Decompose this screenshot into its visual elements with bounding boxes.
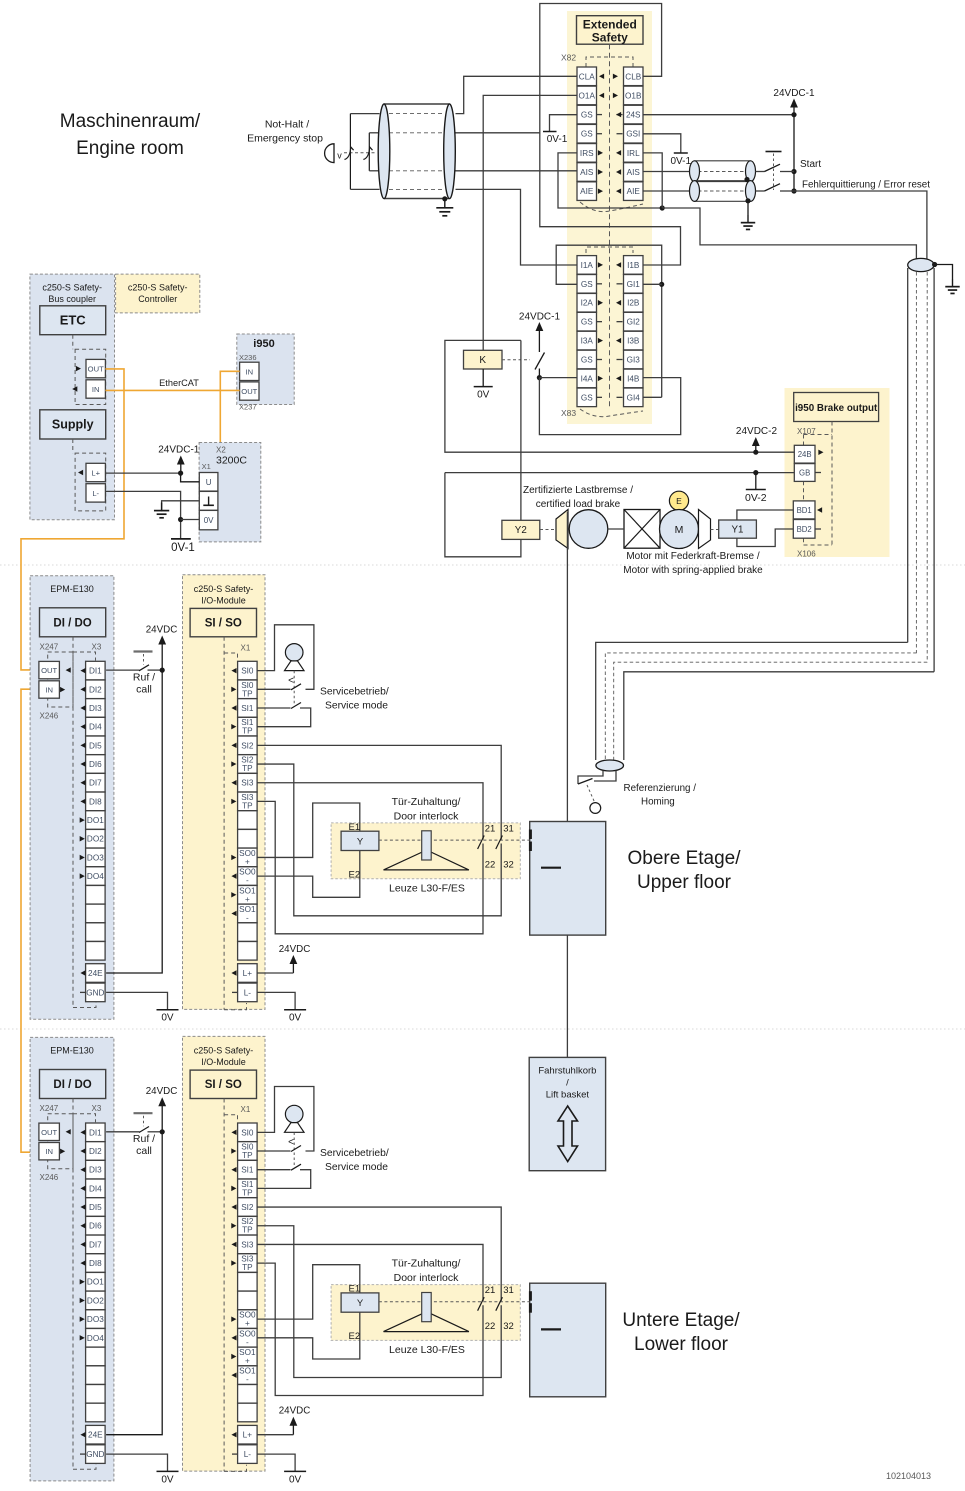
wire CLB-net down to I1B	[540, 133, 681, 265]
wire GS row1 to 0V-1	[550, 115, 578, 131]
svg-text:21: 21	[485, 824, 496, 835]
wire e-stop cable wire4 to I1A	[456, 189, 578, 265]
svg-text:I4A: I4A	[581, 374, 594, 383]
wire L- to 0V (upper)	[257, 992, 295, 1009]
spring brake box	[624, 510, 660, 549]
wire 24VDC down to 24E (lower)	[106, 1132, 162, 1435]
svg-text:24VDC-1: 24VDC-1	[158, 445, 200, 456]
svg-text:Obere Etage/: Obere Etage/	[627, 848, 741, 869]
SI/SO terminal SI2 (lower)	[238, 1198, 258, 1217]
24VDC arrow (SI/SO upper)	[290, 955, 298, 964]
wire SI3TP to contact 22 (upper)	[257, 801, 483, 933]
svg-text:0V-1: 0V-1	[547, 134, 568, 145]
svg-text:Lift basket: Lift basket	[546, 1090, 590, 1101]
svg-text:c250-S Safety-: c250-S Safety-	[194, 584, 254, 594]
svg-text:DI2: DI2	[89, 685, 102, 694]
svg-text:L-: L-	[244, 1450, 252, 1459]
X82 terminal IRL (right row 5)	[624, 144, 644, 163]
svg-text:E1: E1	[349, 1284, 361, 1295]
e-stop wiring inner loop	[369, 132, 379, 134]
X83 terminal GS (left row 4)	[577, 312, 597, 331]
svg-text:+: +	[245, 1356, 250, 1365]
svg-text:O1B: O1B	[625, 91, 642, 100]
wire GS(X83) loop over to GI rail	[556, 245, 662, 397]
svg-text:v: v	[337, 151, 342, 161]
svg-text:certified load brake: certified load brake	[536, 499, 621, 510]
EPM OUT arrow (upper)	[66, 667, 71, 672]
svg-text:DO2: DO2	[87, 1296, 104, 1305]
svg-text:AIS: AIS	[627, 168, 641, 177]
EPM terminal DI4 (lower)	[86, 1179, 106, 1198]
wire earth terminal to ground	[162, 501, 200, 512]
EPM IN arrow (upper)	[60, 687, 65, 692]
svg-text:GB: GB	[799, 469, 810, 478]
module SI/SO (lower)	[190, 1070, 256, 1098]
svg-text:Controller: Controller	[138, 294, 177, 304]
X83 terminal I1B (right row 1)	[624, 256, 644, 275]
svg-text:GI4: GI4	[627, 393, 641, 402]
svg-text:0V: 0V	[477, 390, 490, 401]
SI/SO terminal SI3 (lower)	[238, 1235, 258, 1254]
svg-text:Service mode: Service mode	[325, 701, 388, 712]
svg-text:L-: L-	[244, 988, 252, 997]
SI/SO terminal SO0- (upper)	[238, 867, 258, 886]
svg-text:c250-S Safety-: c250-S Safety-	[42, 283, 102, 293]
X1 dashed frame (upper)	[224, 653, 237, 661]
SI/SO terminal SI3TP (upper)	[238, 792, 258, 811]
Ruf actuator bar (upper)	[134, 650, 153, 652]
block Extended Safety	[577, 16, 644, 45]
svg-text:Y: Y	[357, 1298, 364, 1309]
SI/SO terminal SI2TP (lower)	[238, 1216, 258, 1235]
SI/SO terminal L- (upper)	[238, 983, 258, 1002]
svg-text:E1: E1	[349, 822, 361, 833]
svg-text:SI3: SI3	[241, 1240, 254, 1249]
emergency stop mushroom actuator	[325, 144, 334, 163]
block i950 Brake output highlight	[785, 388, 890, 557]
EPM terminal DO3 (upper)	[86, 848, 106, 867]
shielded cable (e-stop)	[384, 104, 450, 199]
24B arrow	[818, 450, 823, 455]
svg-text:EPM-E130: EPM-E130	[50, 1046, 94, 1056]
svg-text:IRL: IRL	[627, 149, 640, 158]
right cable top ferrule	[908, 258, 934, 271]
svg-text:0V: 0V	[161, 1013, 174, 1024]
svg-text:SI0: SI0	[241, 1128, 254, 1137]
svg-text:Servicebetrieb/: Servicebetrieb/	[320, 1148, 389, 1159]
X83 terminal GI3 (right row 6)	[624, 350, 644, 369]
svg-text:call: call	[136, 684, 152, 696]
svg-text:IRS: IRS	[580, 149, 594, 158]
svg-text:DI3: DI3	[89, 1166, 102, 1175]
X82 terminal AIS (right row 6)	[624, 163, 644, 182]
SI/SO terminal spare 9 (upper)	[238, 829, 258, 848]
X82 terminal CLB (right row 1)	[624, 67, 644, 86]
svg-text:OUT: OUT	[41, 1128, 57, 1137]
block EPM-E130 (lower)	[30, 1037, 114, 1481]
svg-text:24E: 24E	[88, 969, 103, 978]
EPM terminal spare 14 (lower)	[86, 1385, 106, 1404]
svg-text:TP: TP	[242, 1188, 253, 1197]
svg-text:c250-S Safety-: c250-S Safety-	[194, 1046, 254, 1056]
0V symbol under K	[474, 386, 493, 388]
SI/SO terminal spare 9 (lower)	[238, 1291, 258, 1310]
24VDC arrow (EPM lower)	[158, 1097, 166, 1106]
EPM terminal DI2 (upper)	[86, 680, 106, 699]
svg-text:Motor with spring-applied brak: Motor with spring-applied brake	[623, 565, 763, 576]
EPM IN arrow (lower)	[60, 1149, 65, 1154]
SI/SO terminal SI2 (upper)	[238, 736, 258, 755]
X82 terminal GSI (right row 4)	[624, 124, 644, 143]
svg-text:+: +	[245, 895, 250, 904]
svg-text:Tür-Zuhaltung/: Tür-Zuhaltung/	[392, 1258, 461, 1270]
relay K contact	[535, 353, 545, 370]
SI/SO terminal SI1 (lower)	[238, 1160, 258, 1179]
X83 row 1 arrows	[598, 262, 603, 267]
block i950	[237, 334, 294, 405]
wire L+ to U	[105, 472, 180, 474]
svg-text:GSI: GSI	[626, 130, 640, 139]
svg-text:24VDC: 24VDC	[146, 625, 178, 636]
svg-text:Not-Halt /: Not-Halt /	[265, 119, 309, 131]
svg-text:GI3: GI3	[627, 356, 641, 365]
svg-text:DI7: DI7	[89, 779, 102, 788]
svg-text:24VDC: 24VDC	[279, 1406, 311, 1417]
svg-text:DO4: DO4	[87, 1334, 104, 1343]
terminal OUT (EPM upper)	[39, 661, 60, 678]
node I4A junction	[537, 375, 542, 380]
svg-text:DI4: DI4	[89, 723, 102, 732]
svg-text:Homing: Homing	[641, 797, 675, 808]
svg-text:I2B: I2B	[627, 299, 640, 308]
24VDC-2 arrow	[752, 437, 760, 446]
X82 terminal AIS (left row 6)	[577, 163, 597, 182]
svg-text:EtherCAT: EtherCAT	[159, 378, 199, 388]
wire L+ to 24VDC (upper)	[257, 972, 293, 974]
terminal IN (EPM upper)	[39, 681, 60, 698]
svg-text:Safety: Safety	[592, 31, 628, 45]
block c250-S Safety-Controller	[116, 274, 200, 313]
svg-text:24VDC: 24VDC	[146, 1086, 178, 1097]
0V symbol (EPM lower)	[157, 1470, 179, 1472]
svg-text:I/O-Module: I/O-Module	[201, 596, 246, 606]
service key switch symbol (upper)	[285, 644, 303, 662]
svg-text:TP: TP	[242, 689, 253, 698]
wire GB return from Y2 loop	[445, 472, 794, 474]
wire to I4A	[539, 377, 577, 379]
X83 terminal GS (left row 2)	[577, 275, 597, 294]
service contact 2 (upper)	[291, 703, 301, 709]
svg-text:X247: X247	[40, 1104, 59, 1113]
X82 row 4 inner stubs	[597, 133, 603, 135]
svg-text:DO1: DO1	[87, 816, 104, 825]
SI/SO terminal spare 8 (upper)	[238, 811, 258, 830]
GB stub	[815, 472, 821, 474]
SI/SO terminal SO1- (lower)	[238, 1366, 258, 1385]
EPM terminal DI8 (lower)	[86, 1254, 106, 1273]
svg-text:Door interlock: Door interlock	[394, 811, 460, 823]
24VDC arrow (SI/SO lower)	[290, 1417, 298, 1426]
svg-text:DI5: DI5	[89, 741, 102, 750]
motor output cone	[699, 510, 711, 549]
wire SI3TP to contact 22 (lower)	[257, 1263, 483, 1395]
svg-text:OUT: OUT	[88, 365, 104, 374]
svg-text:IN: IN	[246, 367, 254, 376]
SI/SO terminal spare 8 (lower)	[238, 1272, 258, 1291]
emergency stop actuator dashed link	[344, 152, 376, 154]
solenoid Y2	[502, 520, 540, 539]
wire AIS right to button cable	[643, 171, 690, 173]
svg-text:X237: X237	[239, 403, 257, 412]
e-stop cable shield ground	[442, 196, 447, 201]
wire IRL down to junction	[643, 153, 662, 208]
SI/SO terminal SI0TP (lower)	[238, 1142, 258, 1161]
svg-text:OUT: OUT	[241, 387, 257, 396]
svg-text:24B: 24B	[798, 450, 812, 459]
svg-text:Engine room: Engine room	[76, 138, 184, 159]
svg-text:DI4: DI4	[89, 1184, 102, 1193]
svg-text:CLB: CLB	[625, 72, 641, 81]
EPM terminal GND (upper)	[86, 983, 106, 1002]
terminal GB	[794, 464, 815, 482]
svg-text:32: 32	[503, 1321, 514, 1332]
svg-text:GI2: GI2	[627, 318, 641, 327]
Y1 dashed link	[711, 529, 719, 531]
svg-text:DO3: DO3	[87, 853, 104, 862]
svg-text:BD1: BD1	[797, 506, 812, 515]
door tongue marks (upper)	[529, 830, 532, 840]
e-stop cable wire3	[389, 170, 444, 172]
wire junction to right cable	[662, 208, 916, 261]
svg-text:GS: GS	[581, 393, 593, 402]
svg-text:DI6: DI6	[89, 760, 102, 769]
svg-text:SI2: SI2	[241, 741, 254, 750]
floor switch dash (lower)	[541, 1328, 561, 1330]
wire disc to brake box	[608, 528, 624, 530]
svg-text:Untere Etage/: Untere Etage/	[622, 1310, 740, 1331]
svg-text:K: K	[479, 355, 486, 366]
terminal IN (EPM lower)	[39, 1143, 60, 1160]
service contact 1 (upper)	[291, 684, 301, 690]
svg-text:X3: X3	[92, 1104, 102, 1113]
e-stop contact 2	[368, 133, 370, 171]
EPM terminal DI5 (lower)	[86, 1198, 106, 1217]
terminal IN (ETC)	[86, 380, 105, 398]
svg-text:M: M	[675, 524, 684, 536]
svg-text:SI0: SI0	[241, 667, 254, 676]
0V-1 symbol left of X82	[543, 131, 557, 133]
svg-text:IN: IN	[45, 1147, 53, 1156]
svg-text:24VDC-2: 24VDC-2	[736, 426, 778, 437]
svg-text:31: 31	[503, 824, 514, 835]
SI/SO terminal SO1+ (upper)	[238, 885, 258, 904]
svg-text:X106: X106	[797, 550, 816, 559]
door interlock highlight (upper)	[331, 823, 520, 879]
X83 row 7 arrows	[598, 376, 603, 381]
EPM terminal DI6 (upper)	[86, 755, 106, 774]
X83 row 3 arrows	[598, 300, 603, 305]
svg-text:L-: L-	[92, 489, 99, 498]
e-stop cable wire2	[389, 132, 444, 134]
X83 terminal I2B (right row 3)	[624, 293, 644, 312]
svg-text:GS: GS	[581, 130, 593, 139]
EPM terminal DI3 (upper)	[86, 699, 106, 718]
X82 terminal GS (left row 3)	[577, 105, 597, 124]
terminal L+ (Supply)	[86, 463, 105, 481]
X83 terminal GI2 (right row 4)	[624, 312, 644, 331]
X83 row 2 inner stubs	[597, 283, 603, 285]
svg-text:21: 21	[485, 1285, 496, 1296]
svg-text:Fehlerquittierung / Error rese: Fehlerquittierung / Error reset	[802, 180, 930, 191]
svg-text:DI1: DI1	[89, 667, 102, 676]
module Supply	[40, 410, 106, 439]
e-stop cable wire4	[389, 188, 444, 190]
relay K coil	[464, 350, 503, 369]
SI/SO terminal L+ (upper)	[238, 964, 258, 983]
X83 terminal GI4 (right row 8)	[624, 388, 644, 407]
svg-text:+: +	[245, 1319, 250, 1328]
svg-text:0V: 0V	[289, 1013, 302, 1024]
svg-text:c250-S Safety-: c250-S Safety-	[128, 283, 188, 293]
EPM terminal DO4 (upper)	[86, 867, 106, 886]
switch Ruf / call (upper)	[106, 669, 139, 671]
svg-text:AIE: AIE	[580, 187, 594, 196]
motor M	[660, 510, 699, 549]
e-stop wiring outer loop	[350, 113, 379, 115]
svg-text:E2: E2	[349, 870, 361, 881]
contact 31/32 (lower)	[496, 1297, 503, 1311]
SI/SO terminal SI2TP (upper)	[238, 755, 258, 774]
BD1 arrow	[817, 507, 822, 512]
X82 row 1 bidirectional arrows	[599, 74, 604, 79]
svg-text:DI / DO: DI / DO	[53, 1079, 91, 1091]
svg-text:<: <	[288, 676, 294, 687]
X82 row 5 arrows	[598, 150, 603, 155]
wire SO0- to door solenoid E2 (upper)	[257, 851, 360, 898]
section separator upper	[0, 564, 965, 566]
SI/SO terminal SI1TP (upper)	[238, 717, 258, 736]
terminal earth (3200C)	[199, 491, 218, 510]
switch Start	[756, 171, 765, 173]
svg-text:I1A: I1A	[581, 261, 594, 270]
door tongue marks (lower)	[529, 1291, 532, 1301]
node L+ junction	[178, 471, 183, 476]
terminal BD1	[793, 501, 815, 519]
block c250-S Safety-Bus coupler	[30, 274, 115, 520]
svg-text:3200C: 3200C	[216, 455, 247, 467]
X83 terminal I3A (left row 5)	[577, 331, 597, 350]
K contact dashed link	[502, 359, 530, 361]
X82 terminal AIE (right row 7)	[624, 182, 644, 201]
module DI/DO (upper)	[40, 608, 106, 637]
EPM terminal DI4 (upper)	[86, 717, 106, 736]
X83 terminal I4A (left row 7)	[577, 369, 597, 388]
X83 terminal GI1 (right row 2)	[624, 275, 644, 294]
connector X82 dashed outline	[609, 44, 611, 409]
wire 24S to 24VDC-1	[643, 114, 794, 116]
wire L+ to 24VDC (lower)	[257, 1434, 293, 1436]
svg-text:I1B: I1B	[627, 261, 640, 270]
wire SI2TP to contact 32 (lower)	[257, 1226, 501, 1378]
X83 terminal GS (left row 6)	[577, 350, 597, 369]
svg-text:Lower floor: Lower floor	[634, 1334, 729, 1355]
svg-text:X2: X2	[216, 446, 226, 455]
contact 21/22 (lower)	[478, 1297, 485, 1311]
e-stop cable right ferrule	[444, 104, 456, 199]
box Untere Etage (lower floor)	[530, 1283, 606, 1397]
svg-text:DI7: DI7	[89, 1240, 102, 1249]
wire SO0+ to door solenoid E1 (upper)	[257, 803, 360, 857]
SI/SO terminal SI0 (lower)	[238, 1123, 258, 1142]
e-stop cable wire1 (screen run)	[389, 113, 444, 115]
X83 terminal I1A (left row 1)	[577, 256, 597, 275]
load brake disc	[569, 510, 608, 549]
EPM terminal DO3 (lower)	[86, 1310, 106, 1329]
Ruf actuator bar (lower)	[134, 1112, 153, 1114]
wire K coil to 0V	[482, 369, 484, 387]
switch Ruf / call (lower)	[106, 1131, 139, 1133]
node GI1 junction	[659, 282, 664, 287]
svg-text:SI1: SI1	[241, 1166, 254, 1175]
svg-text:SI / SO: SI / SO	[205, 618, 242, 630]
X82 row 2 bidirectional arrows	[599, 93, 604, 98]
svg-text:DO2: DO2	[87, 835, 104, 844]
svg-text:Extended: Extended	[583, 18, 637, 32]
block 3200C	[199, 443, 261, 542]
24VDC arrow (EPM upper)	[158, 636, 166, 645]
wire AIE right to button cable	[643, 190, 690, 192]
node 0V-2 junction	[753, 470, 758, 475]
svg-text:ETC: ETC	[60, 313, 87, 328]
svg-text:-: -	[246, 913, 249, 922]
yellow highlight band Extended Safety	[567, 11, 652, 424]
svg-text:X246: X246	[40, 1173, 59, 1182]
wire L- to 0V terminal	[105, 491, 180, 539]
svg-text:I4B: I4B	[627, 374, 640, 383]
svg-text:TP: TP	[242, 1226, 253, 1235]
svg-text:X247: X247	[40, 643, 59, 652]
svg-text:24VDC-1: 24VDC-1	[773, 88, 815, 99]
X83 terminal I3B (right row 5)	[624, 331, 644, 350]
door solenoid Y (lower)	[341, 1293, 379, 1312]
ETC internal dashed bus	[72, 335, 74, 350]
svg-text:X246: X246	[40, 712, 59, 721]
Supply L+ arrow	[78, 470, 83, 475]
X82 row 6 arrows	[598, 169, 603, 174]
switch Fehlerquittierung / Error reset	[756, 190, 765, 192]
svg-text:-: -	[246, 1375, 249, 1384]
svg-text:Leuze L30-F/ES: Leuze L30-F/ES	[389, 1344, 465, 1356]
svg-text:0V: 0V	[161, 1474, 174, 1485]
svg-text:DI2: DI2	[89, 1147, 102, 1156]
svg-text:<: <	[288, 1137, 294, 1148]
wire SI0 service loop (upper)	[257, 625, 314, 690]
wire SI1 service loop (lower)	[257, 1169, 290, 1171]
svg-text:0V-2: 0V-2	[745, 492, 767, 504]
SI/SO terminal spare 15 (lower)	[238, 1403, 258, 1422]
contact 31/32 (upper)	[496, 836, 503, 850]
24VDC-1 supply arrow	[177, 456, 185, 465]
node Ruf junction (upper)	[160, 668, 165, 673]
EPM terminal DO2 (upper)	[86, 829, 106, 848]
SI/SO terminal SO1- (upper)	[238, 904, 258, 923]
wire GI4 to rail	[643, 396, 662, 398]
EPM terminal DI8 (upper)	[86, 792, 106, 811]
svg-text:EPM-E130: EPM-E130	[50, 584, 94, 594]
SI/SO terminal SI0TP (upper)	[238, 680, 258, 699]
door mechanical dashed link (upper)	[379, 839, 530, 841]
SI/SO internal dashed bus (upper)	[223, 637, 225, 1010]
